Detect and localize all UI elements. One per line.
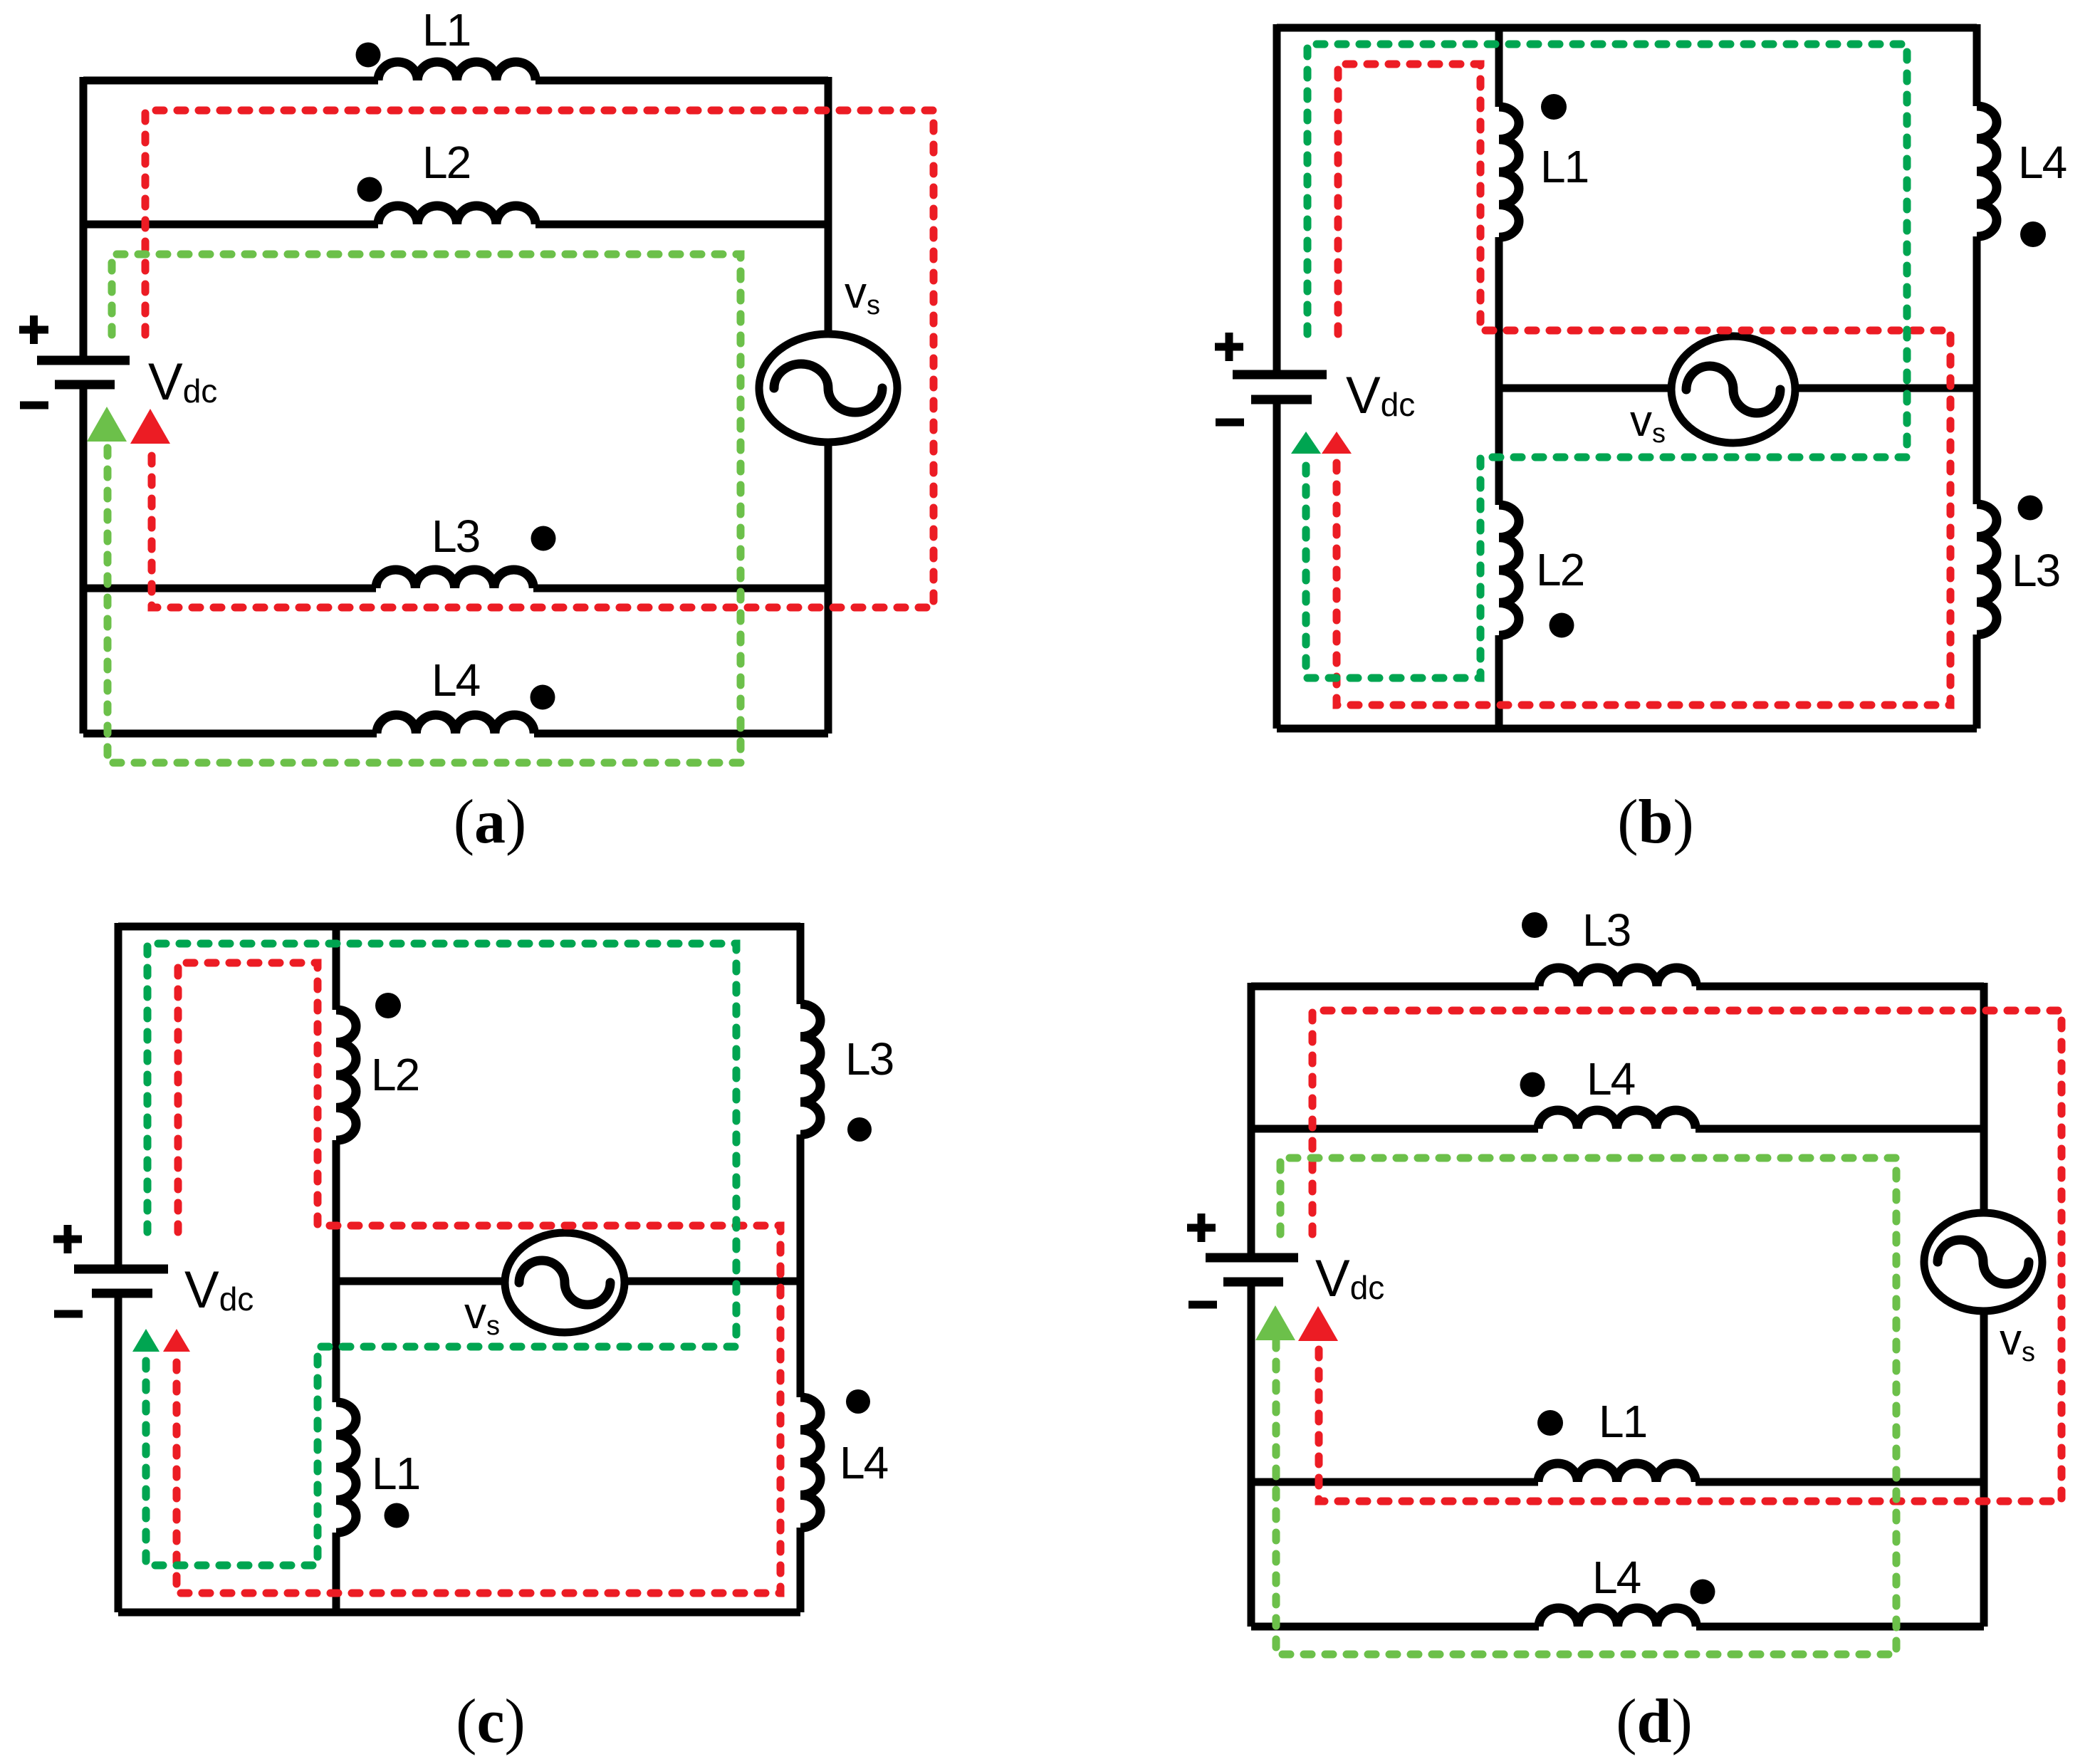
inductor L1 (a) [378, 62, 535, 80]
AC source vs (a) sine wave [774, 364, 882, 412]
green current loop (d) [1276, 1158, 1896, 1654]
inductor L2 (b) [1499, 505, 1519, 635]
svg-text:L1: L1 [1540, 141, 1588, 192]
inductor L4 (b) [1977, 106, 1997, 236]
svg-text:L4: L4 [432, 654, 480, 706]
polarity dot of L2 (b) [1550, 613, 1574, 638]
red current arrow (d) [1298, 1306, 1338, 1341]
wire: (c) center leg below L1 [333, 1533, 340, 1612]
inductor L3 (d) [1539, 968, 1696, 986]
wire: (d) L4 branch right segment [1695, 1125, 1984, 1133]
AC source vs (c) circle [505, 1233, 625, 1332]
wire: (d) L4 branch left segment [1251, 1125, 1538, 1133]
wire: (c) middle branch from center leg to vs [336, 1278, 505, 1285]
inductor L4 (c) [800, 1397, 820, 1528]
svg-text:L3: L3 [1582, 904, 1630, 956]
battery Vdc (b) negative plate [1251, 395, 1312, 405]
wire: (d) bottom rail left of lower L4 [1251, 1623, 1539, 1631]
battery Vdc (d) positive plate [1206, 1253, 1298, 1263]
battery Vdc (c) positive plate [74, 1265, 168, 1274]
AC source vs (d) sine wave [1938, 1240, 2029, 1284]
inductor L1 (c) [336, 1402, 356, 1533]
green current arrow (b) [1291, 432, 1321, 454]
polarity dot of L1 (b) [1541, 94, 1567, 120]
wire: (d) bottom rail right of lower L4 [1696, 1623, 1984, 1631]
polarity dot of L4 (b) [2020, 221, 2046, 247]
wire: (b) bottom rail [1277, 725, 1977, 733]
AC source vs (c) sine wave [519, 1261, 610, 1305]
wire: (b) center leg between L1 and L2 [1495, 237, 1503, 505]
wire: (b) center leg top [1495, 28, 1503, 107]
plus sign (b) [1215, 333, 1243, 361]
polarity dot of L4 (a) [531, 685, 555, 710]
wire: (b) middle branch from vs to right rail [1795, 385, 1977, 392]
inductor L1 (d) [1538, 1463, 1695, 1482]
wire: (a) right rail above vs [825, 77, 832, 335]
minus sign (a) [20, 402, 48, 409]
wire: (c) right rail bottom [797, 1528, 805, 1612]
AC source vs (b) circle [1671, 336, 1795, 443]
wire: (a) top rail segment right of L1 to node at right rail [535, 77, 828, 85]
wire: (c) left rail above battery [115, 923, 122, 1265]
wire: (a) L2 branch left segment [83, 221, 378, 229]
svg-text:L2: L2 [422, 137, 470, 188]
svg-text:L4: L4 [1592, 1552, 1641, 1603]
wire: (a) L3 branch left segment [83, 585, 376, 593]
polarity dot of L3 (a) [531, 526, 556, 551]
plus sign (a) [19, 315, 48, 344]
AC source vs (a) circle [759, 334, 897, 442]
wire: (c) center leg between L2 and L1 [333, 1140, 340, 1402]
wire: (c) left rail below battery [115, 1295, 122, 1612]
wire: (c) bottom rail [118, 1609, 800, 1617]
wire: (a) L2 branch right segment [535, 221, 828, 229]
polarity dot of L3 (d) [1522, 912, 1547, 938]
wire: (d) right rail above vs [1980, 983, 1988, 1213]
svg-text:(d): (d) [1616, 1687, 1693, 1756]
AC source vs (d) circle [1924, 1213, 2042, 1311]
red current arrow (b) [1322, 432, 1352, 454]
battery Vdc (d) negative plate [1223, 1278, 1283, 1287]
inductor L4 (a) [377, 715, 534, 734]
green current arrow (a) [87, 407, 127, 442]
wire: (c) middle branch from vs to right rail [625, 1278, 800, 1285]
plus sign (d) [1187, 1214, 1216, 1242]
AC source vs (b) sine wave [1686, 366, 1780, 413]
plus sign (c) [53, 1225, 82, 1253]
svg-text:L3: L3 [845, 1033, 893, 1085]
wire: (c) right rail between L3 and L4 [797, 1134, 805, 1397]
inductor L3 (c) [800, 1004, 820, 1134]
red current arrow (a) [130, 409, 170, 444]
svg-text:L1: L1 [372, 1448, 419, 1499]
inductor L1 (b) [1499, 107, 1519, 237]
wire: (b) left rail below battery [1273, 404, 1281, 729]
inductor L4 (d) [1538, 1110, 1695, 1129]
polarity dot of L1 (c) [385, 1503, 409, 1528]
wire: (c) right rail top [797, 923, 805, 1004]
svg-text:L3: L3 [2012, 545, 2059, 596]
svg-text:(a): (a) [454, 788, 527, 857]
svg-text:L4: L4 [840, 1437, 888, 1488]
wire: (b) middle branch from center leg to vs [1499, 385, 1671, 392]
svg-text:L4: L4 [2018, 137, 2067, 188]
polarity dot of L4 (c) [846, 1389, 870, 1414]
wire: (a) bottom rail right of L4 [534, 730, 828, 738]
green current loop (b) [1306, 44, 1907, 678]
wire: (b) right rail between L4 and L3 [1973, 236, 1981, 504]
svg-text:L1: L1 [1599, 1396, 1646, 1447]
wire: (a) bottom rail left of L4 [83, 730, 377, 738]
svg-text:(c): (c) [456, 1687, 526, 1756]
wire: (d) top rail left of L3 [1251, 983, 1539, 991]
polarity dot of L4 (d) [1520, 1073, 1545, 1097]
wire: (d) left rail above battery [1248, 983, 1255, 1253]
wire: (c) top rail [118, 923, 800, 931]
minus sign (d) [1188, 1301, 1217, 1309]
wire: (a) left rail above battery [80, 77, 88, 356]
svg-text:(b): (b) [1617, 788, 1694, 857]
polarity dot of L4 lower (d) [1691, 1580, 1715, 1604]
wire: (d) right rail below vs [1980, 1311, 1988, 1627]
svg-text:L4: L4 [1587, 1053, 1635, 1105]
svg-text:L2: L2 [1536, 544, 1584, 595]
wire: (d) left rail below battery [1248, 1285, 1255, 1627]
red current loop (a) [145, 110, 934, 607]
wire: (a) left rail below battery [80, 389, 88, 734]
green current arrow (d) [1255, 1305, 1295, 1340]
red current loop (d) [1312, 1011, 2062, 1501]
wire: (b) left rail above battery [1273, 24, 1281, 370]
minus sign (b) [1216, 419, 1244, 427]
green current arrow (c) [132, 1329, 160, 1352]
battery Vdc (c) negative plate [92, 1289, 152, 1298]
red current arrow (c) [163, 1329, 190, 1352]
wire: (a) right rail below vs [825, 442, 832, 734]
polarity dot of L1 (d) [1537, 1410, 1563, 1436]
minus sign (c) [54, 1310, 83, 1318]
wire: (c) center leg top [333, 927, 340, 1010]
green current loop (a) [108, 254, 741, 763]
inductor L3 (b) [1977, 504, 1997, 635]
wire: (a) L3 branch right segment [533, 585, 828, 593]
wire: (d) L1 branch right segment [1695, 1478, 1984, 1486]
battery Vdc (b) positive plate [1233, 370, 1327, 380]
wire: (d) L1 branch left segment [1251, 1478, 1538, 1486]
wire: (b) top rail [1277, 24, 1977, 32]
inductor L2 (a) [378, 206, 535, 224]
polarity dot of L2 (a) [357, 177, 382, 202]
svg-text:L2: L2 [371, 1049, 419, 1100]
inductor L3 (a) [376, 570, 533, 588]
wire: (d) top rail right of L3 [1696, 983, 1984, 991]
svg-text:L1: L1 [422, 4, 470, 56]
svg-text:L3: L3 [432, 511, 479, 562]
polarity dot of L1 (a) [356, 43, 381, 68]
battery Vdc (a) negative plate [55, 380, 115, 390]
polarity dot of L3 (c) [847, 1117, 872, 1142]
green current loop (c) [146, 944, 736, 1565]
polarity dot of L2 (c) [375, 993, 401, 1018]
inductor L2 (c) [336, 1010, 356, 1140]
wire: (b) right rail top [1973, 24, 1981, 106]
wire: (b) right rail bottom [1973, 635, 1981, 729]
battery Vdc (a) positive plate [37, 356, 130, 365]
wire: (a) top rail segment left of L1 [83, 77, 378, 85]
wire: (b) center leg below L2 [1495, 635, 1503, 729]
red current loop (b) [1337, 64, 1950, 705]
polarity dot of L3 (b) [2018, 496, 2043, 521]
inductor L4 lower (d) [1539, 1608, 1696, 1627]
red current loop (c) [177, 963, 780, 1593]
